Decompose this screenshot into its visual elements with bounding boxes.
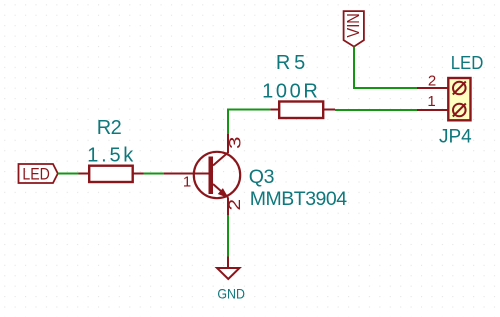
svg-text:MMBT3904: MMBT3904 xyxy=(250,188,347,210)
svg-text:Q3: Q3 xyxy=(249,166,275,188)
svg-text:100R: 100R xyxy=(262,81,318,103)
wire VIN to JP4 pin 2 xyxy=(354,47,417,88)
wire Q3 collector to R5 xyxy=(228,110,270,135)
svg-text:2: 2 xyxy=(428,73,436,90)
svg-text:1: 1 xyxy=(183,173,191,190)
svg-text:3: 3 xyxy=(226,137,245,150)
wire Q3 emitter to GND xyxy=(227,215,229,257)
resistor R5 xyxy=(270,102,335,119)
wire LED flag to R2 xyxy=(58,173,79,175)
svg-text:GND: GND xyxy=(217,285,245,301)
svg-text:R2: R2 xyxy=(97,117,122,139)
svg-text:2: 2 xyxy=(226,199,244,211)
svg-text:VIN: VIN xyxy=(343,13,363,38)
svg-text:LED: LED xyxy=(451,52,484,73)
connector JP4 xyxy=(417,78,471,120)
resistor R2 xyxy=(79,166,144,182)
svg-text:JP4: JP4 xyxy=(439,127,472,148)
power flag VIN (global label) xyxy=(344,11,364,47)
svg-text:1: 1 xyxy=(427,93,435,110)
svg-text:1.5k: 1.5k xyxy=(87,145,134,167)
ground symbol GND xyxy=(217,257,240,280)
wire R5 to JP4 pin 1 xyxy=(335,109,417,111)
svg-text:LED: LED xyxy=(22,165,50,184)
global label LED (left net flag) xyxy=(19,164,58,183)
wire R2 to Q3 base xyxy=(144,173,165,175)
transistor Q3 xyxy=(164,134,240,215)
